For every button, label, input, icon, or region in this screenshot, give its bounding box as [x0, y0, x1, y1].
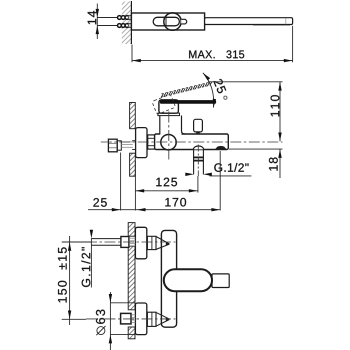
escutcheon plate (side view) — [136, 128, 147, 158]
body (side view) — [155, 134, 229, 150]
cartridge cap circle (top view) — [164, 13, 181, 30]
hose nut bands (side view) — [193, 157, 204, 162]
wall section (side view) — [130, 103, 136, 177]
bottom neck (front view) — [147, 312, 156, 326]
dimension 25 (side view) — [88, 153, 135, 212]
bottom cone connector (front view) — [156, 312, 170, 326]
dimension 150 ±15 (front view) — [58, 236, 91, 325]
handle base (side view) — [159, 100, 179, 113]
handle lever (top view) — [153, 17, 179, 26]
shower outlet tube (side view) — [194, 149, 204, 174]
label 25° — [213, 78, 227, 99]
dimension 18 — [229, 149, 283, 178]
handle (front view) — [164, 269, 229, 291]
centerline (side view) — [101, 112, 283, 162]
aerator (side view) — [215, 146, 227, 150]
dimension Ø63 (front view) — [96, 292, 135, 350]
handle base flange (side view) — [158, 113, 180, 116]
label G.1/2" (front view) — [81, 230, 93, 288]
bottom union nut (front view) — [121, 313, 136, 324]
diverter knob (side view) — [194, 119, 203, 134]
top inlet pipe (front view) — [91, 237, 135, 248]
handle phantom raised 25° (side view) — [152, 82, 212, 115]
dimension MAX. 315 — [132, 26, 293, 63]
temp stop button (top view) — [181, 19, 187, 24]
wall section (top view) — [122, 1, 132, 44]
shower outlet boss (side view) — [194, 146, 204, 149]
threaded tails — [128, 15, 134, 27]
dimension 170 — [135, 151, 220, 211]
label G.1/2" (side view) — [185, 163, 251, 176]
dimension 125 — [135, 145, 198, 193]
centerlines (front view) — [86, 242, 176, 319]
collar / neck (side view) — [160, 116, 185, 136]
inlet union (side view) — [108, 139, 135, 152]
top cone connector (front view) — [156, 237, 170, 250]
dimension 14 — [88, 4, 99, 40]
mixer body (top view) — [131, 13, 204, 30]
escutcheon rosettes (front view) — [135, 227, 146, 334]
supply pipes (top view) — [97, 18, 117, 26]
top neck (front view) — [147, 236, 156, 249]
body (front view) — [161, 230, 176, 327]
wall section (front view) — [128, 223, 135, 339]
25° swing arc — [202, 72, 216, 108]
cartridge circle (side view) — [161, 135, 176, 150]
spout (top view) — [205, 18, 293, 26]
handle lever solid (side view) — [160, 100, 216, 104]
dimension 110 — [208, 82, 283, 142]
connector block (side view) — [148, 135, 155, 149]
lever slot (top view) — [165, 17, 167, 25]
pipe connector beads — [118, 16, 129, 28]
